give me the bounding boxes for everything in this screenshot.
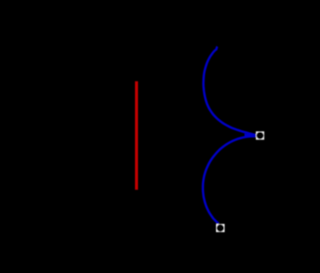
wire W1 (red vertical wire segment) <box>135 81 138 190</box>
arrowhead of arc A1 <box>244 134 256 138</box>
endpoint marker M1 (selection handle, right) <box>256 131 264 139</box>
endpoint marker M2 (selection handle, bottom) <box>216 224 225 232</box>
arc A1 (blue spline, upper) <box>203 47 256 136</box>
arc A2 (blue spline, lower) <box>203 136 256 224</box>
